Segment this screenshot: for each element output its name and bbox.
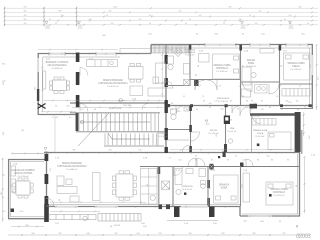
svg-text:305: 305	[285, 101, 288, 103]
lower right step wall	[239, 206, 241, 216]
svg-text:HODNIK: HODNIK	[210, 130, 218, 132]
perimeter labels above building	[102, 34, 305, 38]
closet bed1	[199, 54, 210, 63]
svg-text:120: 120	[61, 15, 64, 17]
svg-text:90: 90	[195, 156, 197, 158]
svg-text:P= 7.40 m2: P= 7.40 m2	[218, 101, 228, 103]
svg-text:P= 21.30 m2: P= 21.30 m2	[18, 176, 29, 178]
svg-text:350: 350	[24, 23, 27, 25]
garage left wall	[8, 159, 10, 219]
hatch band above wall	[120, 46, 189, 54]
corridor small texts	[109, 102, 306, 110]
svg-text:410: 410	[179, 11, 182, 13]
svg-text:95: 95	[276, 96, 278, 98]
bed1 upper	[213, 54, 240, 79]
stairwell left low wall	[75, 112, 77, 131]
bottom dim line	[8, 234, 310, 236]
kitchen counter mid-up room	[87, 60, 118, 67]
bath dim column	[161, 50, 163, 98]
lower right wall	[299, 152, 301, 216]
stair top wall	[70, 112, 160, 114]
svg-text:P= 12.40 m2: P= 12.40 m2	[217, 71, 228, 73]
bathroom right wall	[189, 44, 191, 86]
svg-text:VOZILO+OSTAVA: VOZILO+OSTAVA	[14, 172, 33, 175]
pier left wall upper	[37, 89, 39, 101]
study desk	[242, 67, 251, 85]
svg-text:120: 120	[242, 184, 244, 187]
inner left wall	[42, 57, 44, 112]
svg-text:30: 30	[149, 23, 151, 25]
svg-text:90: 90	[196, 74, 198, 76]
under-wall texts left room	[52, 117, 71, 119]
svg-text:P= 6.80 m2: P= 6.80 m2	[186, 55, 195, 57]
bedroom1 hall wall	[190, 79, 240, 81]
sub dim lines	[11, 210, 100, 227]
pier lower mid kitchen	[158, 167, 161, 174]
svg-text:+BLAGOVAONICA: +BLAGOVAONICA	[47, 64, 67, 67]
door arcs	[46, 68, 279, 207]
pier junction x196	[194, 80, 199, 86]
svg-text:120: 120	[2, 211, 5, 213]
svg-text:IZBA: IZBA	[230, 127, 235, 130]
thick wall y114 mid-right	[250, 113, 296, 116]
entry leader line	[54, 117, 56, 153]
svg-text:80: 80	[269, 107, 271, 109]
svg-text:350: 350	[24, 11, 27, 13]
bath-up diamond sink	[174, 48, 183, 57]
svg-text:385: 385	[59, 11, 62, 13]
svg-text:95: 95	[307, 23, 309, 25]
svg-text:85: 85	[251, 101, 253, 103]
pier right mid	[295, 112, 301, 152]
corridor end arc	[142, 104, 148, 110]
inner top wall left	[43, 56, 120, 58]
svg-text:80: 80	[271, 160, 273, 162]
upper top-right wall	[151, 44, 313, 46]
sideboard vertical	[93, 173, 101, 201]
svg-text:90: 90	[242, 96, 244, 98]
interior partitions mid band right	[167, 105, 302, 154]
garage bottom wall	[8, 218, 46, 220]
svg-text:120: 120	[239, 19, 242, 21]
upper band bottom wall	[70, 102, 165, 104]
hall closet	[242, 89, 251, 97]
room number tags	[13, 50, 316, 173]
svg-text:SPAVACA SOBA: SPAVACA SOBA	[213, 64, 231, 67]
washer square strip	[162, 181, 170, 190]
level mark outside entry	[44, 100, 210, 153]
svg-text:RODITELJI: RODITELJI	[273, 192, 285, 194]
svg-text:830: 830	[229, 7, 232, 9]
dark dot	[257, 144, 260, 147]
DIMTICKS	[4, 7, 314, 27]
svg-text:90: 90	[59, 199, 61, 201]
svg-text:P= 9.10 m2: P= 9.10 m2	[158, 136, 168, 138]
svg-text:352: 352	[259, 11, 262, 13]
hall wall x253	[251, 114, 253, 152]
toilet low bath	[201, 184, 206, 189]
svg-text:350: 350	[24, 7, 27, 9]
svg-text:90: 90	[203, 101, 205, 103]
svg-text:90: 90	[94, 109, 96, 111]
bath/bed partition	[207, 166, 209, 206]
right dim line	[316, 45, 318, 110]
garage left shapes	[11, 166, 16, 176]
svg-text:90: 90	[209, 107, 211, 109]
bath-up tub	[184, 64, 190, 75]
corridor vanity	[255, 85, 268, 94]
svg-text:95: 95	[185, 23, 187, 25]
svg-text:80: 80	[211, 160, 213, 162]
DIMSTRIP	[4, 8, 318, 25]
corridor dim line	[72, 106, 163, 108]
svg-text:95: 95	[287, 160, 289, 162]
wc sink	[184, 107, 189, 111]
svg-text:90: 90	[69, 117, 71, 119]
svg-text:80: 80	[171, 103, 173, 105]
stair left pier	[76, 113, 79, 131]
bed2 upper-right	[284, 53, 311, 80]
interior partitions lower right	[159, 166, 241, 206]
shaft on y166 wall	[209, 164, 213, 170]
level marks below strip	[45, 22, 294, 29]
svg-text:25: 25	[55, 23, 57, 25]
bottom label row	[55, 221, 282, 228]
wall ticks	[49, 44, 307, 218]
svg-text:90/210: 90/210	[114, 225, 121, 227]
svg-text:80: 80	[210, 187, 212, 189]
svg-text:P= 44.80 m2: P= 44.80 m2	[67, 169, 78, 171]
svg-text:DJECA: DJECA	[257, 132, 264, 135]
svg-text:SPAVACA: SPAVACA	[219, 184, 230, 187]
svg-text:120: 120	[255, 23, 258, 25]
svg-text:95: 95	[171, 109, 173, 111]
svg-text:P= 14.25 m2: P= 14.25 m2	[274, 195, 285, 197]
svg-text:+0.00: +0.00	[19, 211, 23, 213]
left rotated dims	[1, 76, 320, 195]
pier x250 junction	[250, 104, 258, 109]
svg-text:95: 95	[249, 15, 251, 17]
upper top-left wall	[38, 53, 152, 55]
closet bed-right	[243, 173, 250, 202]
top dim aux line	[38, 49, 118, 51]
svg-text:120: 120	[310, 64, 312, 67]
pier junction x240 low	[240, 163, 244, 168]
bed	[268, 132, 291, 150]
kitchen wall	[158, 167, 160, 206]
svg-text:P= 11.35 m2: P= 11.35 m2	[291, 69, 302, 71]
staircase	[70, 113, 164, 146]
svg-text:P= 6.15 m2: P= 6.15 m2	[182, 189, 192, 191]
partition study/bed2	[279, 44, 281, 105]
svg-text:25: 25	[223, 23, 225, 25]
lower bottom wall mid	[46, 206, 240, 208]
svg-text:262: 262	[109, 11, 112, 13]
mid-right bedroom B	[184, 79, 291, 149]
svg-text:90: 90	[296, 185, 298, 187]
pier stair wall segs	[165, 100, 168, 113]
pier lower-left interior wall	[45, 154, 49, 161]
svg-text:GARAZA ZA OSOBNO: GARAZA ZA OSOBNO	[11, 169, 35, 172]
svg-text:120: 120	[209, 103, 212, 105]
svg-text:90: 90	[257, 160, 259, 162]
wc left wall	[190, 105, 192, 152]
svg-text:17x17.6/28: 17x17.6/28	[123, 105, 131, 107]
svg-text:120: 120	[42, 66, 44, 69]
stair cut diagonal	[78, 113, 109, 146]
closet band wall right	[280, 108, 313, 110]
closet row room B	[252, 119, 276, 126]
dim numbers	[24, 7, 310, 26]
svg-text:350: 350	[24, 19, 27, 21]
svg-text:P= 8.20 m2: P= 8.20 m2	[246, 66, 256, 68]
inner top wall right	[151, 47, 311, 49]
bed2 bottom wall	[280, 83, 313, 85]
bathroom top wall lower band	[140, 166, 300, 168]
svg-text:120: 120	[138, 150, 141, 152]
dark dots lower rooms	[269, 194, 272, 197]
bath-up toilet	[168, 56, 174, 64]
shower upper bath	[184, 79, 190, 85]
kitchen low counters	[141, 169, 158, 205]
thin wall double lines	[11, 48, 311, 217]
svg-text:17x: 17x	[80, 109, 83, 111]
svg-text:205: 205	[220, 109, 223, 111]
svg-text:60: 60	[297, 109, 299, 111]
svg-text:75: 75	[167, 59, 169, 61]
bed low-mid	[214, 175, 239, 203]
FURNITURE	[11, 48, 310, 206]
low living table small	[66, 179, 72, 185]
entry steps bottom	[49, 214, 141, 222]
svg-text:110: 110	[296, 101, 299, 103]
garage dot	[11, 209, 15, 213]
svg-text:95: 95	[281, 109, 283, 111]
svg-text:85: 85	[235, 156, 237, 158]
svg-text:RODITELJI: RODITELJI	[216, 68, 228, 70]
svg-text:120: 120	[289, 15, 292, 17]
svg-text:P= 4.1 m2: P= 4.1 m2	[228, 131, 237, 133]
hall wall x225	[225, 105, 227, 152]
window breaks	[37, 44, 308, 217]
inner right wall	[309, 48, 311, 105]
svg-text:385: 385	[72, 150, 75, 152]
step	[150, 45, 152, 54]
inner lower bottom wall	[48, 204, 240, 206]
bath low tub	[175, 169, 182, 185]
svg-text:95: 95	[147, 184, 149, 186]
UL room table	[53, 80, 67, 91]
svg-text:95: 95	[183, 96, 185, 98]
right wall window	[311, 55, 313, 75]
stair direction arrow lower	[108, 133, 150, 139]
svg-text:95: 95	[227, 160, 229, 162]
svg-text:525: 525	[11, 184, 13, 187]
bath left wall	[172, 166, 174, 206]
svg-text:120: 120	[242, 160, 245, 162]
svg-text:205: 205	[66, 106, 69, 108]
pier divider mid	[76, 72, 80, 85]
WALLS	[8, 44, 313, 220]
svg-text:DNEVNI BORAVAK: DNEVNI BORAVAK	[62, 162, 83, 165]
svg-text:80: 80	[186, 109, 188, 111]
treads lower flight	[105, 134, 157, 146]
bed low-right	[266, 182, 293, 205]
svg-text:350: 350	[24, 15, 27, 17]
dining table mid-up	[129, 67, 144, 80]
right step wall x302	[301, 130, 303, 154]
left room bottom wall	[38, 114, 78, 116]
svg-text:90: 90	[196, 109, 198, 111]
svg-text:KUPAONICA: KUPAONICA	[182, 185, 194, 188]
svg-text:90: 90	[243, 65, 245, 67]
svg-text:75: 75	[169, 158, 171, 160]
UL room side shelf	[42, 71, 46, 89]
right wall upper	[311, 44, 313, 108]
svg-text:90: 90	[55, 106, 57, 108]
bottom dim numbers	[31, 233, 286, 235]
porch edge line	[167, 220, 218, 222]
piers on top partitions	[239, 45, 242, 51]
svg-text:120: 120	[111, 23, 114, 25]
inner garage walls	[11, 161, 44, 163]
scattered dim texts	[11, 59, 312, 201]
bed1/bed2 partition	[240, 166, 242, 206]
svg-text:240: 240	[108, 150, 111, 152]
svg-text:120: 120	[178, 160, 181, 162]
stair direction arrow upper	[80, 121, 150, 123]
svg-text:305: 305	[299, 7, 302, 9]
partition bed1/study	[240, 44, 242, 105]
svg-text:120: 120	[214, 101, 217, 103]
svg-text:120: 120	[199, 15, 202, 17]
svg-text:95: 95	[169, 187, 171, 189]
treads upper flight	[79, 113, 159, 131]
svg-text:120: 120	[267, 156, 270, 158]
closet row mid right	[282, 89, 310, 97]
svg-text:SOBA: SOBA	[221, 187, 228, 190]
svg-text:90: 90	[246, 101, 248, 103]
kitchen junction piers	[159, 204, 163, 209]
svg-text:SPAVACA SOBA: SPAVACA SOBA	[287, 62, 305, 65]
svg-text:95: 95	[284, 19, 286, 21]
wc bottom wall	[168, 129, 191, 131]
svg-text:STUBISTE: STUBISTE	[158, 133, 168, 135]
dark piers	[11, 53, 215, 223]
extra piers	[37, 45, 312, 158]
svg-text:240: 240	[243, 221, 246, 223]
svg-text:210: 210	[149, 15, 152, 17]
svg-text:75: 75	[304, 107, 306, 109]
wc toilet	[171, 114, 176, 119]
left interior wall lower	[46, 152, 48, 220]
piers wall x190	[189, 105, 192, 111]
svg-text:DJECA: DJECA	[292, 65, 300, 68]
duct symbol	[224, 116, 230, 125]
svg-text:KUHINJA+BLAGOVAONICA: KUHINJA+BLAGOVAONICA	[98, 82, 128, 85]
svg-text:95: 95	[42, 89, 44, 91]
svg-text:120: 120	[289, 102, 292, 104]
garage top wall	[8, 159, 46, 161]
study bottom wall	[241, 81, 280, 83]
entry X mark	[38, 104, 46, 109]
right dim line lower	[303, 112, 306, 213]
interior dim rows	[41, 100, 296, 204]
stair right wall	[165, 44, 167, 152]
lower band top wall	[44, 152, 300, 154]
svg-text:95: 95	[189, 19, 191, 21]
svg-text:240: 240	[89, 19, 92, 21]
pier x222 junction low	[223, 152, 226, 158]
svg-text:120: 120	[139, 19, 142, 21]
study shelf	[260, 49, 274, 54]
svg-text:95: 95	[106, 15, 108, 17]
svg-text:P= 28.60 m2: P= 28.60 m2	[52, 68, 63, 70]
svg-text:85: 85	[230, 101, 232, 103]
svg-text:PREDSOBLJE: PREDSOBLJE	[217, 98, 230, 100]
dining table low	[116, 174, 133, 197]
svg-text:SPAVACA SOBA: SPAVACA SOBA	[253, 129, 268, 132]
piers x208 wall	[207, 180, 210, 188]
svg-text:BORAVAK I KUHINJA: BORAVAK I KUHINJA	[46, 61, 69, 64]
left dim line lower	[2, 158, 4, 222]
svg-text:RADNA: RADNA	[247, 59, 256, 62]
sofa group mid-up right	[156, 63, 166, 83]
svg-text:KUHINJA+BLAGOVAONICA: KUHINJA+BLAGOVAONICA	[57, 165, 87, 168]
stair lower base	[104, 145, 164, 147]
svg-text:240: 240	[21, 130, 24, 132]
svg-text:80: 80	[198, 65, 200, 67]
svg-text:SPAVACA SOBA: SPAVACA SOBA	[270, 188, 288, 191]
piers on corridor wall y105	[190, 104, 193, 107]
svg-text:75: 75	[202, 96, 204, 98]
armchair mid-up	[130, 86, 143, 96]
porch piers bottom	[174, 207, 180, 218]
interior partitions upper right	[166, 44, 313, 109]
svg-text:350: 350	[2, 64, 5, 66]
svg-text:95: 95	[261, 101, 263, 103]
lower bottom wall right	[240, 215, 300, 217]
svg-text:SOBA: SOBA	[248, 62, 255, 65]
svg-text:95: 95	[281, 65, 283, 67]
svg-text:90: 90	[195, 160, 197, 162]
pier upper-left room divider top	[76, 53, 80, 63]
svg-text:DNEVNI BORAVAK: DNEVNI BORAVAK	[103, 79, 124, 82]
svg-text:120: 120	[260, 109, 263, 111]
left edge tiny texts	[2, 64, 24, 214]
svg-text:P= 42.15 m2: P= 42.15 m2	[108, 86, 119, 88]
left wall upper	[37, 53, 39, 115]
svg-text:02003: 02003	[296, 234, 311, 240]
svg-text:525: 525	[2, 175, 5, 177]
svg-text:90: 90	[2, 197, 4, 199]
corridor top wall right	[165, 105, 313, 107]
stair mid landing line	[76, 131, 164, 133]
pier bathroom left wall	[165, 55, 168, 64]
LIVING low: sofa L	[57, 187, 77, 194]
svg-text:SMJER ULAZA: SMJER ULAZA	[109, 107, 122, 110]
room A circle symbol	[228, 139, 232, 143]
svg-text:1264: 1264	[113, 7, 117, 9]
svg-text:120: 120	[50, 168, 52, 171]
svg-text:386: 386	[25, 225, 28, 227]
garage table	[16, 181, 30, 195]
bathroom bottom wall	[166, 85, 190, 87]
svg-text:90: 90	[49, 19, 51, 21]
svg-text:P= 10.9 m2: P= 10.9 m2	[256, 136, 265, 138]
pier divider low	[76, 95, 80, 108]
perimeter dimension lines	[2, 44, 318, 236]
